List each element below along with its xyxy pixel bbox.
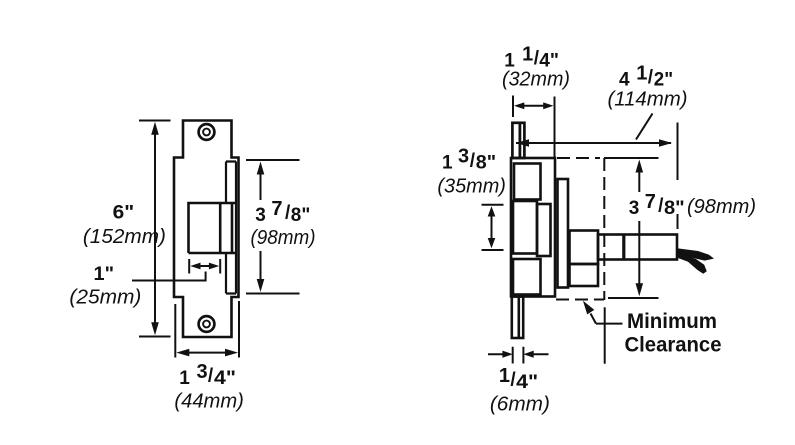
svg-text:8": 8"	[664, 198, 685, 219]
dimension 6in: extension lines	[139, 121, 171, 337]
svg-text:(44mm): (44mm)	[174, 391, 244, 413]
dimension 3-7/8in left: arrowheads	[257, 162, 265, 293]
side view: solenoid cylinder	[598, 235, 677, 260]
svg-text:7: 7	[271, 198, 282, 220]
dimension 3-7/8in right: extension lines	[604, 158, 659, 298]
dimension 1in: arrowheads	[190, 263, 219, 270]
svg-text:1: 1	[522, 43, 533, 65]
left view: top screw hole	[199, 124, 215, 140]
svg-text:4": 4"	[214, 368, 236, 389]
dimension 6in: arrowheads	[151, 122, 159, 335]
side view: back housing	[558, 179, 569, 288]
dimension 3-7/8in left: arrow lines	[260, 173, 262, 281]
dimension 1-3/4in: arrowheads	[176, 349, 238, 357]
minimum clearance arrowhead	[583, 301, 594, 315]
svg-text:Minimum: Minimum	[627, 310, 717, 333]
dimension 3-7/8in left: extension lines	[246, 160, 300, 294]
svg-text:(98mm): (98mm)	[687, 196, 756, 218]
dimension 3-7/8in right: arrowheads	[636, 160, 644, 297]
svg-text:1: 1	[499, 365, 510, 387]
left view: bottom screw hole	[199, 316, 215, 332]
dimension 1-3/8in: extension lines	[482, 205, 504, 250]
dimension 1-1/4in: extension lines	[513, 96, 555, 159]
svg-text:7: 7	[645, 191, 656, 213]
dimension 1in: tick lines	[189, 259, 220, 274]
svg-text:(25mm): (25mm)	[69, 287, 141, 309]
svg-text:4": 4"	[516, 372, 538, 393]
left view: faceplate outline	[174, 121, 239, 338]
dimension 4-1/2in: arrow line	[516, 142, 671, 144]
svg-text:8": 8"	[476, 153, 496, 174]
svg-text:8": 8"	[291, 205, 311, 226]
dimension 1/4in: arrowheads	[502, 351, 533, 358]
side view: middle band left	[513, 201, 537, 254]
svg-text:3: 3	[197, 361, 208, 383]
svg-text:2": 2"	[654, 69, 673, 90]
dashed clearance boundary	[556, 158, 604, 300]
dimension 4-1/2in: arrowheads	[516, 139, 672, 147]
svg-text:(35mm): (35mm)	[437, 176, 506, 198]
svg-text:(98mm): (98mm)	[251, 227, 316, 249]
svg-text:1: 1	[442, 153, 453, 174]
side view: body outline	[511, 158, 555, 297]
svg-text:4: 4	[619, 69, 630, 90]
svg-text:(152mm): (152mm)	[83, 226, 166, 248]
side view: faceplate top strip	[512, 123, 524, 158]
side view: solenoid mount lower	[570, 264, 599, 286]
dimension 3-7/8in right: arrow lines	[638, 171, 640, 285]
dimension 1-3/4in: extension lines	[175, 301, 239, 358]
dimension 1/4in: outside arrow shafts	[488, 353, 549, 355]
svg-text:1: 1	[179, 368, 190, 389]
left view: keeper pocket	[189, 203, 237, 253]
dimension 1in: leader line	[132, 272, 206, 281]
dash segment right	[677, 214, 679, 229]
side view: upper inner block	[514, 164, 541, 200]
svg-text:3: 3	[458, 146, 469, 168]
side view: lower inner block	[513, 259, 541, 295]
dimension 1/4in: tick lines	[513, 347, 524, 364]
minimum clearance leader	[604, 307, 606, 363]
side view: wires	[677, 248, 714, 273]
svg-text:Clearance: Clearance	[625, 334, 722, 357]
dimension 1-3/8in: arrowheads	[488, 206, 496, 248]
svg-text:3: 3	[255, 205, 266, 226]
svg-text:1": 1"	[94, 264, 115, 285]
dimension 1-3/4in: arrow line	[187, 352, 227, 354]
dimension 4-1/2in: right extension line	[677, 123, 679, 181]
dimension 1in: arrow shaft	[196, 265, 213, 267]
svg-text:6": 6"	[113, 202, 135, 223]
dimension 1-1/4in: arrow shaft	[520, 105, 548, 107]
svg-text:/: /	[208, 366, 214, 387]
svg-text:(6mm): (6mm)	[490, 393, 550, 415]
dimension 4-1/2in: leader	[636, 114, 653, 140]
svg-text:3: 3	[629, 198, 640, 219]
side view: solenoid mount upper	[570, 231, 599, 265]
dimension 1-1/4in: arrowheads	[514, 102, 554, 109]
svg-text:(114mm): (114mm)	[608, 88, 688, 110]
side view: faceplate bottom strip	[512, 297, 523, 339]
left view: strike lip strip	[226, 162, 236, 294]
dimension 1-3/8in: arrow shaft	[491, 213, 493, 241]
svg-text:(32mm): (32mm)	[502, 69, 570, 91]
svg-text:1: 1	[636, 62, 647, 84]
dimension 6in: arrow line	[154, 133, 156, 325]
side view: middle band right	[537, 204, 551, 256]
